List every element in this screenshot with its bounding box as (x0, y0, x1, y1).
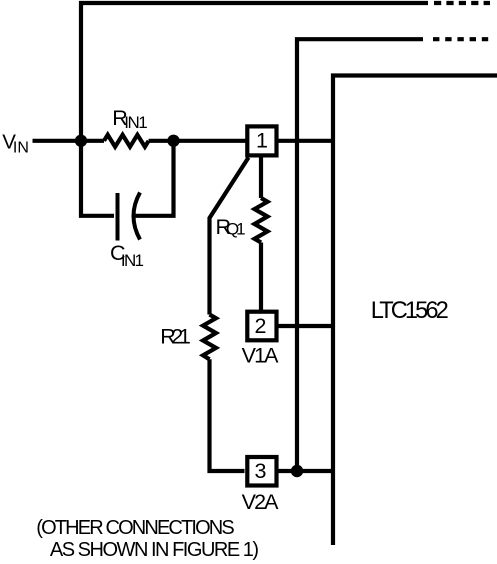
wire diagonal from box1 to R21 (210, 158, 249, 315)
node B junction dot (167, 135, 179, 147)
node C junction dot (291, 465, 303, 477)
wire VIN lead to resistor RIN1 (33, 139, 105, 143)
capacitor CIN1 left plate (116, 193, 120, 241)
wire box1 bottom to resistor RQ1 (259, 158, 263, 199)
svg-text:IN: IN (13, 139, 29, 156)
wire rail 1 dashed continuation (434, 1, 490, 5)
pin box 3 (247, 457, 276, 486)
resistor RIN1 (104, 135, 149, 147)
pin box 2 (247, 312, 276, 341)
svg-text:AS SHOWN IN FIGURE 1): AS SHOWN IN FIGURE 1) (50, 539, 259, 561)
capacitor CIN1 curved plate (134, 193, 141, 240)
wire rail 3 with corner down vertical bus to bottom (333, 76, 497, 546)
svg-text:IN1: IN1 (124, 113, 147, 132)
svg-text:LTC1562: LTC1562 (371, 298, 449, 324)
capacitor CIN1 left loop wire (81, 141, 114, 216)
wire rail 2 dashed continuation (433, 37, 489, 41)
svg-text:R21: R21 (160, 325, 191, 349)
svg-text:Q1: Q1 (226, 219, 246, 238)
resistor RQ1 (255, 198, 268, 243)
wire rail 2 with corner down vertical bus (297, 39, 423, 471)
wire box3 right to bus 3 (279, 469, 334, 473)
svg-text:IN1: IN1 (121, 251, 144, 270)
resistor R21 (203, 315, 216, 360)
capacitor CIN1 right loop wire (133, 141, 174, 216)
wire box2 right to bus 3 (279, 324, 334, 328)
wire rail 1 (top) with corner down to node A (81, 3, 428, 141)
svg-text:(OTHER CONNECTIONS: (OTHER CONNECTIONS (36, 517, 234, 539)
svg-text:V1A: V1A (242, 343, 280, 367)
svg-text:1: 1 (256, 129, 268, 153)
wire RQ1 to box2 (259, 243, 263, 312)
wire RIN1 to box 1 (149, 139, 246, 143)
wire R21 to box3 (210, 359, 245, 471)
svg-text:3: 3 (255, 459, 267, 483)
node A junction dot (75, 135, 87, 147)
pin box 1 (247, 126, 276, 155)
wire box1 right to bus 3 (279, 139, 334, 143)
svg-text:V2A: V2A (242, 490, 280, 514)
svg-text:2: 2 (255, 314, 267, 338)
